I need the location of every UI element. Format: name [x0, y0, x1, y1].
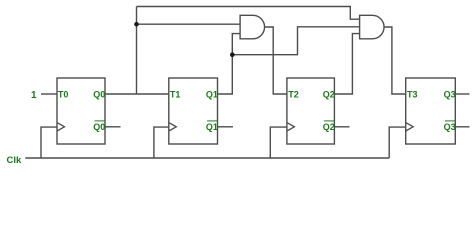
wire gate G2 output to T3	[384, 27, 406, 94]
wire Q2-bar stub	[334, 126, 349, 128]
svg-text:Q0: Q0	[93, 90, 105, 100]
wire Q0 riser at node A	[136, 7, 138, 95]
wire top Q0 feed to gate G2 top input	[137, 7, 360, 20]
wire Q1 to gate G1 bottom input	[218, 34, 241, 94]
svg-text:T2: T2	[288, 90, 299, 100]
wire Q2 to gate G2 bottom input	[334, 34, 359, 94]
flip-flop FF1 box	[169, 78, 218, 144]
AND gate G2 (3-input)	[360, 15, 384, 39]
wire Q0 to T1	[105, 93, 169, 95]
FF3 clock chevron	[406, 123, 414, 131]
svg-text:T1: T1	[170, 90, 181, 100]
wire Q3 output stub	[455, 93, 469, 95]
junction node A (Q0 branch)	[134, 22, 139, 27]
svg-text:Q1: Q1	[206, 90, 218, 100]
wire Q0 branch to gate G1 top input	[137, 23, 241, 25]
svg-text:Q0: Q0	[93, 122, 105, 132]
svg-text:Q3: Q3	[444, 122, 456, 132]
wire Q1 branch to gate G2 middle input	[232, 27, 359, 55]
wire Clk to FF0 clock	[41, 127, 57, 158]
svg-text:Q1: Q1	[206, 122, 218, 132]
svg-text:1: 1	[31, 90, 37, 101]
flip-flop FF0 box	[57, 78, 105, 144]
wire Q3-bar stub	[455, 126, 469, 128]
wire gate G1 output to T2	[265, 27, 287, 94]
wire Clk to FF2 clock	[270, 127, 287, 158]
wire Clk to FF1 clock	[154, 127, 169, 158]
FF2 clock chevron	[287, 123, 295, 131]
AND gate G1	[240, 15, 264, 39]
svg-text:Q2: Q2	[323, 90, 335, 100]
svg-text:T0: T0	[58, 90, 69, 100]
svg-text:Clk: Clk	[7, 155, 23, 166]
pin label Q2-bar	[323, 121, 335, 132]
wire Clk to FF3 clock	[389, 127, 406, 158]
pin label Q1-bar	[206, 121, 218, 132]
flip-flop FF3 box	[406, 78, 456, 144]
svg-text:T3: T3	[407, 90, 418, 100]
pin label Q0-bar	[93, 121, 105, 132]
FF1 clock chevron	[169, 123, 177, 131]
wire Q1-bar stub	[218, 126, 234, 128]
wire Clk bus	[25, 157, 389, 159]
FF0 clock chevron	[57, 123, 65, 131]
svg-text:Q3: Q3	[444, 90, 456, 100]
svg-text:Q2: Q2	[323, 122, 335, 132]
wire Q0-bar stub	[105, 126, 121, 128]
flip-flop FF2 box	[287, 78, 335, 144]
pin label Q3-bar	[444, 121, 456, 132]
wire input-1 to T0	[41, 93, 57, 95]
junction node B (Q1 branch)	[230, 52, 235, 57]
